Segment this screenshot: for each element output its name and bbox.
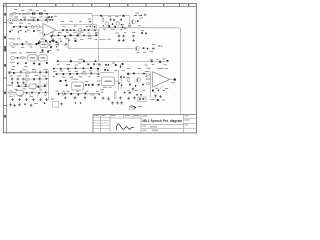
capacitor C10 [114,26,116,28]
label value 75 [75,64,78,67]
ground bus 4 [32,98,35,101]
label B+ text [135,12,139,15]
label value 97 [53,70,57,73]
label value 87 [24,83,27,86]
capacitor C ll big [9,72,11,74]
capacitor C mc4 [112,23,114,25]
label arrow B+ sub [140,17,143,20]
label value 105 [62,76,66,79]
border zone tick top 4 [145,3,147,6]
label value 49 [58,31,61,34]
capacitor C ic2 [85,84,87,86]
capacitor C tr1 [137,20,139,22]
label value 89 [44,83,47,86]
capacitor C bu2 [108,64,109,66]
capacitor C81 [133,73,135,75]
capacitor C u3b [107,70,108,72]
junction dot [25,31,26,32]
border zone number left 2 [4,36,6,39]
capacitor C69 [76,73,78,75]
label value 91 [23,87,26,90]
capacitor C58 [38,92,40,94]
label value 101 [83,70,86,73]
label fb [54,15,57,18]
ground bs3 [18,103,21,106]
label value 31 [122,15,125,18]
capacitor C56 [26,92,28,94]
label value 6 [43,9,46,12]
title block sub text [143,126,159,131]
capacitor C23 [75,40,77,42]
label value 51 [73,31,76,34]
wire U3 out [115,80,119,82]
capacitor C59 [45,92,47,94]
label value 125 [127,89,129,92]
label bs [35,102,38,105]
label value 55 [51,38,54,41]
label value 50 [66,31,69,34]
wire bus drop 4 [37,93,39,97]
label U3 under 2 [109,86,112,89]
label value 84 [26,75,29,78]
capacitor C42 [93,63,95,67]
label value 102 [89,69,92,72]
wire U1 input+ [40,26,44,28]
capacitor C rc4 [129,84,131,86]
label value 93 [40,88,42,91]
label value 119 [127,67,131,70]
label value 25 [86,25,88,28]
junction dot [52,34,53,35]
junction dot [19,13,20,14]
resistor R8 [27,44,32,46]
capacitor C63 [83,67,85,69]
label value 7 [15,16,19,19]
label value 24 [74,25,76,28]
capacitor C br1 [137,94,138,95]
label FL1 [29,51,33,54]
label value 65 [56,49,59,52]
label value 68 [12,46,15,49]
junction dot [20,19,22,21]
capacitor C26 [56,41,58,43]
label bu2 [112,62,115,65]
node arrow down U3 [120,65,122,69]
resistor R fb [47,16,49,21]
ground bs4 [30,104,33,107]
capacitor C30 [42,50,44,52]
ground mb1 [118,39,121,42]
label value 66 [25,41,28,44]
junction dot [56,46,57,47]
label value 83 [17,74,21,77]
connector box bottom right [138,97,146,102]
diode D u3 [129,92,131,94]
label U2 [73,78,79,81]
ground rc [132,87,135,90]
label value 30 [115,15,118,18]
label FL2 [40,51,44,54]
node output arrow B+ [134,14,146,16]
wire rc row a [126,73,146,75]
label value 63 [55,43,57,46]
label value 5 [36,9,39,12]
ground u4b [159,95,162,98]
junction dot [60,41,61,42]
capacitor C25 [49,41,51,43]
wire bus drop 2 [21,93,23,97]
label value 117 [86,90,88,93]
label value 52 [81,31,84,34]
capacitor C47 [46,71,48,73]
junction x95 [94,29,96,31]
ground tc2 [65,43,68,46]
capacitor C61 [68,68,70,70]
junction dot [163,90,164,91]
label LEVEL [79,58,84,61]
ground mb2 [122,39,125,42]
node U4 output dot [174,78,176,80]
label value 20 [61,20,64,23]
wire row C [12,26,41,28]
capacitor C77 [70,93,72,95]
signature [116,124,134,130]
label value 47 [164,63,167,66]
capacitor C11 [151,60,153,62]
wire U4 feedback diagonal [157,86,164,92]
label value 118 [96,90,99,93]
label value 109 [97,75,100,78]
label value 60 [88,37,92,40]
capacitor C+ pair b2 [41,12,42,14]
label value 116 [76,90,79,93]
ground u4a [154,94,157,97]
ground cb2 [74,96,77,99]
label value 33 [111,28,114,31]
title block header text [94,114,140,117]
capacitor C mid [143,47,145,49]
border zone tick left 4 [3,105,6,107]
ground u3c [119,96,122,99]
capacitor C41 [88,64,90,66]
resistor R ic left [63,90,65,96]
wire line in row [13,43,39,45]
border zone number left 5 [4,92,6,95]
wire J1 lead [13,20,18,22]
node pot P1 [11,56,15,60]
transistor Q mid [135,47,139,51]
ground u3e [133,96,136,99]
label value 40 [137,51,139,54]
label XF1 [41,38,46,41]
wire vertical x92.8 [92,16,94,31]
border zone number left 6 [4,115,6,118]
capacitor C+ pair a1 [32,12,34,14]
border zone letter top 2 [55,4,56,6]
label value 77 [87,62,90,65]
ground cb1 [64,96,67,99]
capacitor C8 [33,30,35,32]
capacitor C rs2 [90,26,91,27]
junction dot [158,90,159,91]
wire top bus with rounded corner [99,28,181,115]
label value 74 [66,63,70,66]
label volume row b [26,51,29,54]
wire lower horizontal net [56,60,168,62]
capacitor C u4 dark [157,99,159,101]
border zone tick top 5 [179,3,181,6]
wire bus drop 1 [13,93,15,97]
label value 67 [38,40,41,43]
label U4 [158,67,164,70]
capacitor C12 [159,61,161,63]
capacitor C70 [90,72,92,76]
border zone letter top 3 [91,4,92,6]
capacitor C82 [152,90,154,92]
capacitor C49 [39,78,41,80]
transistor Q mc1 [105,22,108,25]
wire right vertical x150 [150,72,152,98]
capacitor C br2 [140,94,141,95]
border zone tick left 3 [3,77,6,79]
wire mid-left vertical [48,70,50,100]
wire vertical x129.5 [129,16,131,23]
label value 17 [19,29,22,32]
label volume row c [33,51,36,54]
border zone letter top 1 [19,4,20,6]
capacitor C vx1 [120,76,122,78]
label value 71 [12,65,15,68]
relay box left a [29,84,36,89]
capacitor C62 [75,67,77,71]
capacitor C78 [78,93,80,95]
label value 3 [28,8,31,11]
wire row ll [9,71,48,73]
junction dot [98,93,99,94]
wire ic row a [54,68,98,70]
border zone letter top 4 [127,4,128,6]
ground g2 [17,81,20,84]
label value 111 [97,80,101,83]
op-amp U1 [43,24,56,37]
capacitor C ic1 [66,84,68,86]
ground u3d [127,97,130,100]
capacitor C vx2 [123,77,124,78]
capacitor C72 [60,80,62,82]
label value 98 [60,70,63,73]
capacitor C mb1 [118,34,120,38]
label VOLUME 2 [19,51,22,54]
wire diagonal branch [62,44,69,49]
capacitor C on2 [65,29,69,31]
wire vertical x121 [120,75,122,90]
label value 36 [138,24,141,27]
junction dot [64,93,65,94]
junction dot [83,34,85,36]
capacitor C ic3 [88,84,89,86]
sheet background [0,0,200,136]
label x129 [122,23,125,26]
op-amp U4 [153,72,170,88]
resistor R10 [31,71,36,73]
label bottom left ic [51,98,54,101]
capacitor C fb2 [51,16,53,18]
ground bs7 [116,101,119,104]
capacitor C51 [18,85,20,87]
capacitor C g3 [22,77,24,81]
ground bs5 [60,102,63,105]
capacitor C65 [97,68,99,70]
label value 95 [19,95,22,98]
label value 54 [95,31,98,34]
capacitor C rc3 [143,73,145,75]
wire cluster bus [52,35,96,37]
label value 61 [95,38,98,41]
ground bs8 [120,101,123,104]
label value 81 [43,68,47,71]
title block table [93,114,196,132]
wire left block v1 [25,73,27,86]
ground g3 [22,81,25,84]
capacitor C33 [25,62,27,64]
capacitor C rs4 [95,32,96,33]
capacitor C73 [65,80,67,82]
transistor outline [36,25,40,29]
label value 128 [156,87,159,90]
capacitor C v1 [17,57,19,59]
label value 42 [150,50,153,53]
label value 100 [75,70,78,73]
capacitor C13 [167,60,169,62]
label U4 out [172,81,175,84]
border zone tick left 1 [3,22,6,24]
label under U4 b [162,99,165,102]
border frame outer [3,3,196,132]
label U4b [165,67,168,70]
capacitor C53 [31,85,33,87]
label value 13 [10,22,13,25]
capacitor C54 [38,86,40,88]
diode D mid [152,48,154,50]
ground cb3 [84,96,87,99]
ground bus 3 [25,98,28,101]
filter box FL1 [28,55,37,61]
border zone letter top 6 [188,4,189,6]
label value 48 [51,31,54,34]
capacitor C bs3 [75,102,76,103]
label u3 bl2 [101,91,104,94]
capacitor C on1 [62,29,64,31]
label value 27 [78,32,81,35]
capacitor C75 [98,84,100,86]
label u3 bl [101,88,104,91]
label value 16 [10,29,13,32]
border frame inner left line [6,3,8,132]
ground bs6 [111,101,114,104]
capacitor C67 [63,73,65,75]
capacitor C15 [122,63,124,65]
transistor outline [31,26,34,29]
label value 10 [33,16,36,19]
resistor R2 [22,13,27,15]
junction dot [53,68,55,70]
capacitor C80 [127,73,129,75]
border zone tick top 2 [72,3,74,6]
capacitor C76 [58,93,60,95]
ground bus 6 [45,98,48,101]
label value 90 [14,88,17,91]
label rail left [88,18,91,21]
label value 99 [68,70,71,73]
capacitor C22 [53,40,55,42]
resistor R x129 [129,23,131,28]
node mic jack 2 [10,13,13,16]
junction dot [9,31,11,33]
label value 79 [22,68,26,71]
label value 120 [138,67,141,70]
node pot P2 [9,91,13,95]
border zone number left 3 [4,46,6,52]
label value 44 [156,58,159,61]
label bu3 [145,64,148,67]
wire U1 output net [56,29,99,31]
wire top supply rail [13,14,130,16]
resistor R v1 [20,57,25,59]
capacitor C48 [33,78,35,80]
label value 126 [135,89,138,92]
label LINE IN [9,37,16,40]
node output arrow bottom [129,106,136,110]
wire branch corner right [99,29,106,40]
capacitor C32 [17,63,19,65]
resistor R rc [128,77,130,82]
title block right cell text [185,116,190,126]
capacitor C16 [51,35,53,37]
capacitor C55 [44,85,46,87]
border corner diagonal top-left [3,3,6,6]
capacitor C on3 [70,29,72,31]
capacitor C mc5 [121,24,122,26]
capacitor C x129a [122,27,124,29]
capacitor C24 [45,40,47,42]
border zone number left 4 [4,64,6,67]
capacitor C mr2 [145,33,147,35]
junction dot [18,31,19,32]
capacitor C bs1 [24,104,25,105]
title block model label [143,115,148,118]
wire U1 feedback up [47,16,49,23]
label value 26 [58,31,61,34]
transistor Q mc2 [116,22,119,25]
border zone tick top 3 [109,3,111,6]
capacitor C50 [45,78,47,80]
junction dot [44,34,45,35]
capacitor C20 [77,35,79,37]
label value 18 [27,29,30,32]
capacitor C fb1 [49,16,51,18]
label value 21 [70,20,73,23]
label arrow bottom [138,105,142,108]
wire U1 input- [40,32,44,34]
border frame inner top line [3,6,196,8]
label value 28 [101,15,103,18]
label value 14 [19,22,23,25]
label value 19 [37,29,41,32]
label value 69 [21,46,24,49]
capacitor C2 [33,18,35,22]
label value 106 [70,76,73,79]
IC U2 [72,82,83,90]
